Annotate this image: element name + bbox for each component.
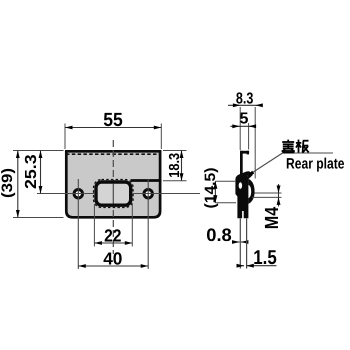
side view: hook leg (240, 151, 243, 175)
vertical centerline (112, 140, 114, 254)
bottom extension line back face (239, 219, 241, 269)
M4 claw (248, 179, 254, 204)
dimension (14.5) (202, 167, 236, 208)
leader line rear plate (247, 153, 333, 176)
dimension 22 (94, 204, 132, 247)
hole right (144, 190, 152, 198)
side view: emboss blob (235, 171, 253, 218)
svg-text:18.3: 18.3 (167, 153, 183, 178)
bend dashed line under top edge (66, 153, 161, 155)
feature line slot to right edge (131, 179, 162, 182)
centerline over slot interior (112, 184, 114, 204)
svg-text:40: 40 (103, 249, 122, 269)
svg-text:55: 55 (103, 110, 123, 131)
side view: top bent tab bar (240, 151, 249, 154)
kanji 裏板 (drawn strokes) (282, 140, 309, 153)
hole centerline / 40 extension left (77, 179, 79, 269)
dimension 25.3 (23, 151, 42, 194)
bottom extension line front face (246, 219, 248, 269)
horizontal centerline left segment (37, 193, 94, 195)
dimension 1.5 (237, 247, 277, 269)
dimension 5 (230, 110, 256, 149)
slot dashed ring (94, 180, 134, 208)
plate outline (front view) (66, 151, 160, 217)
dimension 8.3 (228, 91, 263, 179)
svg-text:25.3: 25.3 (23, 154, 40, 189)
svg-text:8.3: 8.3 (236, 91, 254, 108)
white speck in blob (239, 182, 242, 189)
svg-text:22: 22 (104, 225, 122, 245)
svg-text:(14.5): (14.5) (202, 167, 219, 208)
svg-text:1.5: 1.5 (253, 247, 277, 269)
svg-text:Rear plate: Rear plate (286, 155, 345, 172)
svg-text:(39): (39) (0, 168, 16, 198)
horizontal centerline right segment (133, 193, 200, 195)
dimension M4 (252, 184, 283, 229)
slot (96, 182, 131, 205)
dimension (39) (0, 151, 63, 218)
hole centerline / 40 extension right (147, 179, 149, 269)
hole left (74, 190, 82, 198)
svg-text:5: 5 (239, 110, 248, 127)
dimension 18.3 (163, 151, 187, 181)
dimension 0.8 (206, 225, 248, 245)
svg-text:M4: M4 (262, 206, 283, 229)
svg-text:0.8: 0.8 (206, 225, 232, 245)
dimension 40 (78, 249, 148, 269)
dimension 55 (65, 110, 161, 149)
